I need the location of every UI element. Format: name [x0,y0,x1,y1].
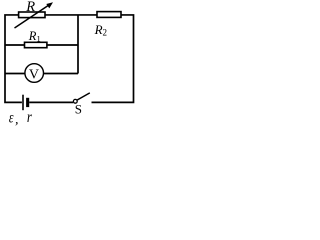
rheostat arrow [15,2,54,28]
resistor R1 (box) [25,42,47,47]
wire: middle vertical junction column [77,15,79,74]
svg-text:ε: ε [9,109,14,126]
resistor R2 (box) [97,12,121,18]
wire: R1 right lead [47,44,78,46]
battery cell: short thick plate [26,98,29,107]
wire: right loop (top-right, right vertical, bottom-right to switch) [92,15,134,102]
switch S: blade [77,93,90,100]
battery cell: long thin plate [22,95,24,111]
svg-text:,: , [15,112,19,126]
svg-text:V: V [29,68,39,83]
svg-text:R1: R1 [28,29,41,44]
wire: top segment between R and R2 [45,14,97,16]
svg-text:r: r [27,109,32,126]
rheostat R (box) [19,12,45,18]
wire: left loop (top-left segment, left vertical, bottom-left segment to battery) [5,15,22,102]
svg-text:S: S [75,102,82,117]
voltmeter V (circle) [25,64,44,83]
svg-text:R: R [25,0,35,15]
wire: voltmeter left lead [5,73,25,75]
wire: R1 left lead [5,44,25,46]
svg-text:R2: R2 [94,22,107,38]
wire: voltmeter right lead [44,73,79,75]
switch S: pivot circle [73,99,77,103]
wire: battery to switch [29,101,73,103]
label epsilon, r [9,109,32,128]
